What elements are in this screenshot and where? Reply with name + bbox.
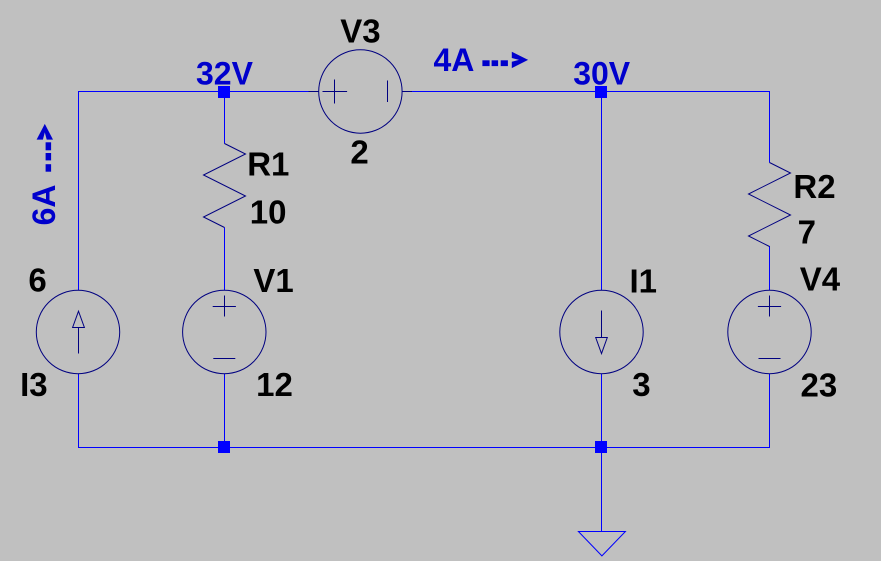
wire top-right horizontal [412,91,771,93]
voltage source V1 [183,290,266,373]
ground [578,532,625,556]
node 32V junction [218,86,230,98]
svg-text:23: 23 [801,367,838,404]
4A arrow dashes [482,60,508,66]
svg-text:V4: V4 [800,261,841,298]
svg-text:2: 2 [350,133,368,170]
svg-text:6: 6 [28,262,46,299]
node 30V junction [595,86,607,98]
svg-text:I3: I3 [20,366,48,403]
svg-text:V1: V1 [253,262,293,299]
6A arrow dashes [46,142,52,171]
svg-text:12: 12 [256,366,293,403]
4A arrow head [512,52,528,68]
wire V1 to bottom [224,374,226,448]
svg-text:10: 10 [250,194,287,231]
svg-text:3: 3 [632,366,650,403]
svg-text:7: 7 [798,214,816,251]
bottom junction at ground [595,441,607,453]
svg-text:V3: V3 [340,13,380,50]
wire node30V to I1 [601,92,603,291]
current source I3 [36,290,119,373]
wire top-left horizontal [78,91,309,93]
wire right vertical middle [769,246,771,291]
current source I1 [560,290,643,373]
bottom junction at V1 [218,441,230,453]
svg-text:R2: R2 [793,168,835,205]
wire bottom node to ground [601,447,603,531]
wire node32V to R1 [224,92,226,144]
svg-text:R1: R1 [247,146,289,183]
wire R1 to V1 [224,228,226,291]
resistor R2 [749,163,791,247]
wire bottom horizontal [78,447,770,449]
wire right vertical lower [769,374,771,449]
resistor R1 [204,144,246,228]
svg-text:32V: 32V [196,55,254,91]
svg-text:4A: 4A [434,42,475,78]
wire right vertical upper [769,91,771,163]
wire I1 to bottom [601,374,603,448]
voltage source V4 [728,290,811,373]
svg-text:30V: 30V [573,56,631,92]
6A arrow head [37,124,53,140]
svg-text:I1: I1 [630,262,658,299]
wire left vertical lower [78,374,80,449]
voltage source V3 [309,50,413,133]
svg-text:6A: 6A [26,184,62,225]
wire left vertical upper [78,91,80,291]
